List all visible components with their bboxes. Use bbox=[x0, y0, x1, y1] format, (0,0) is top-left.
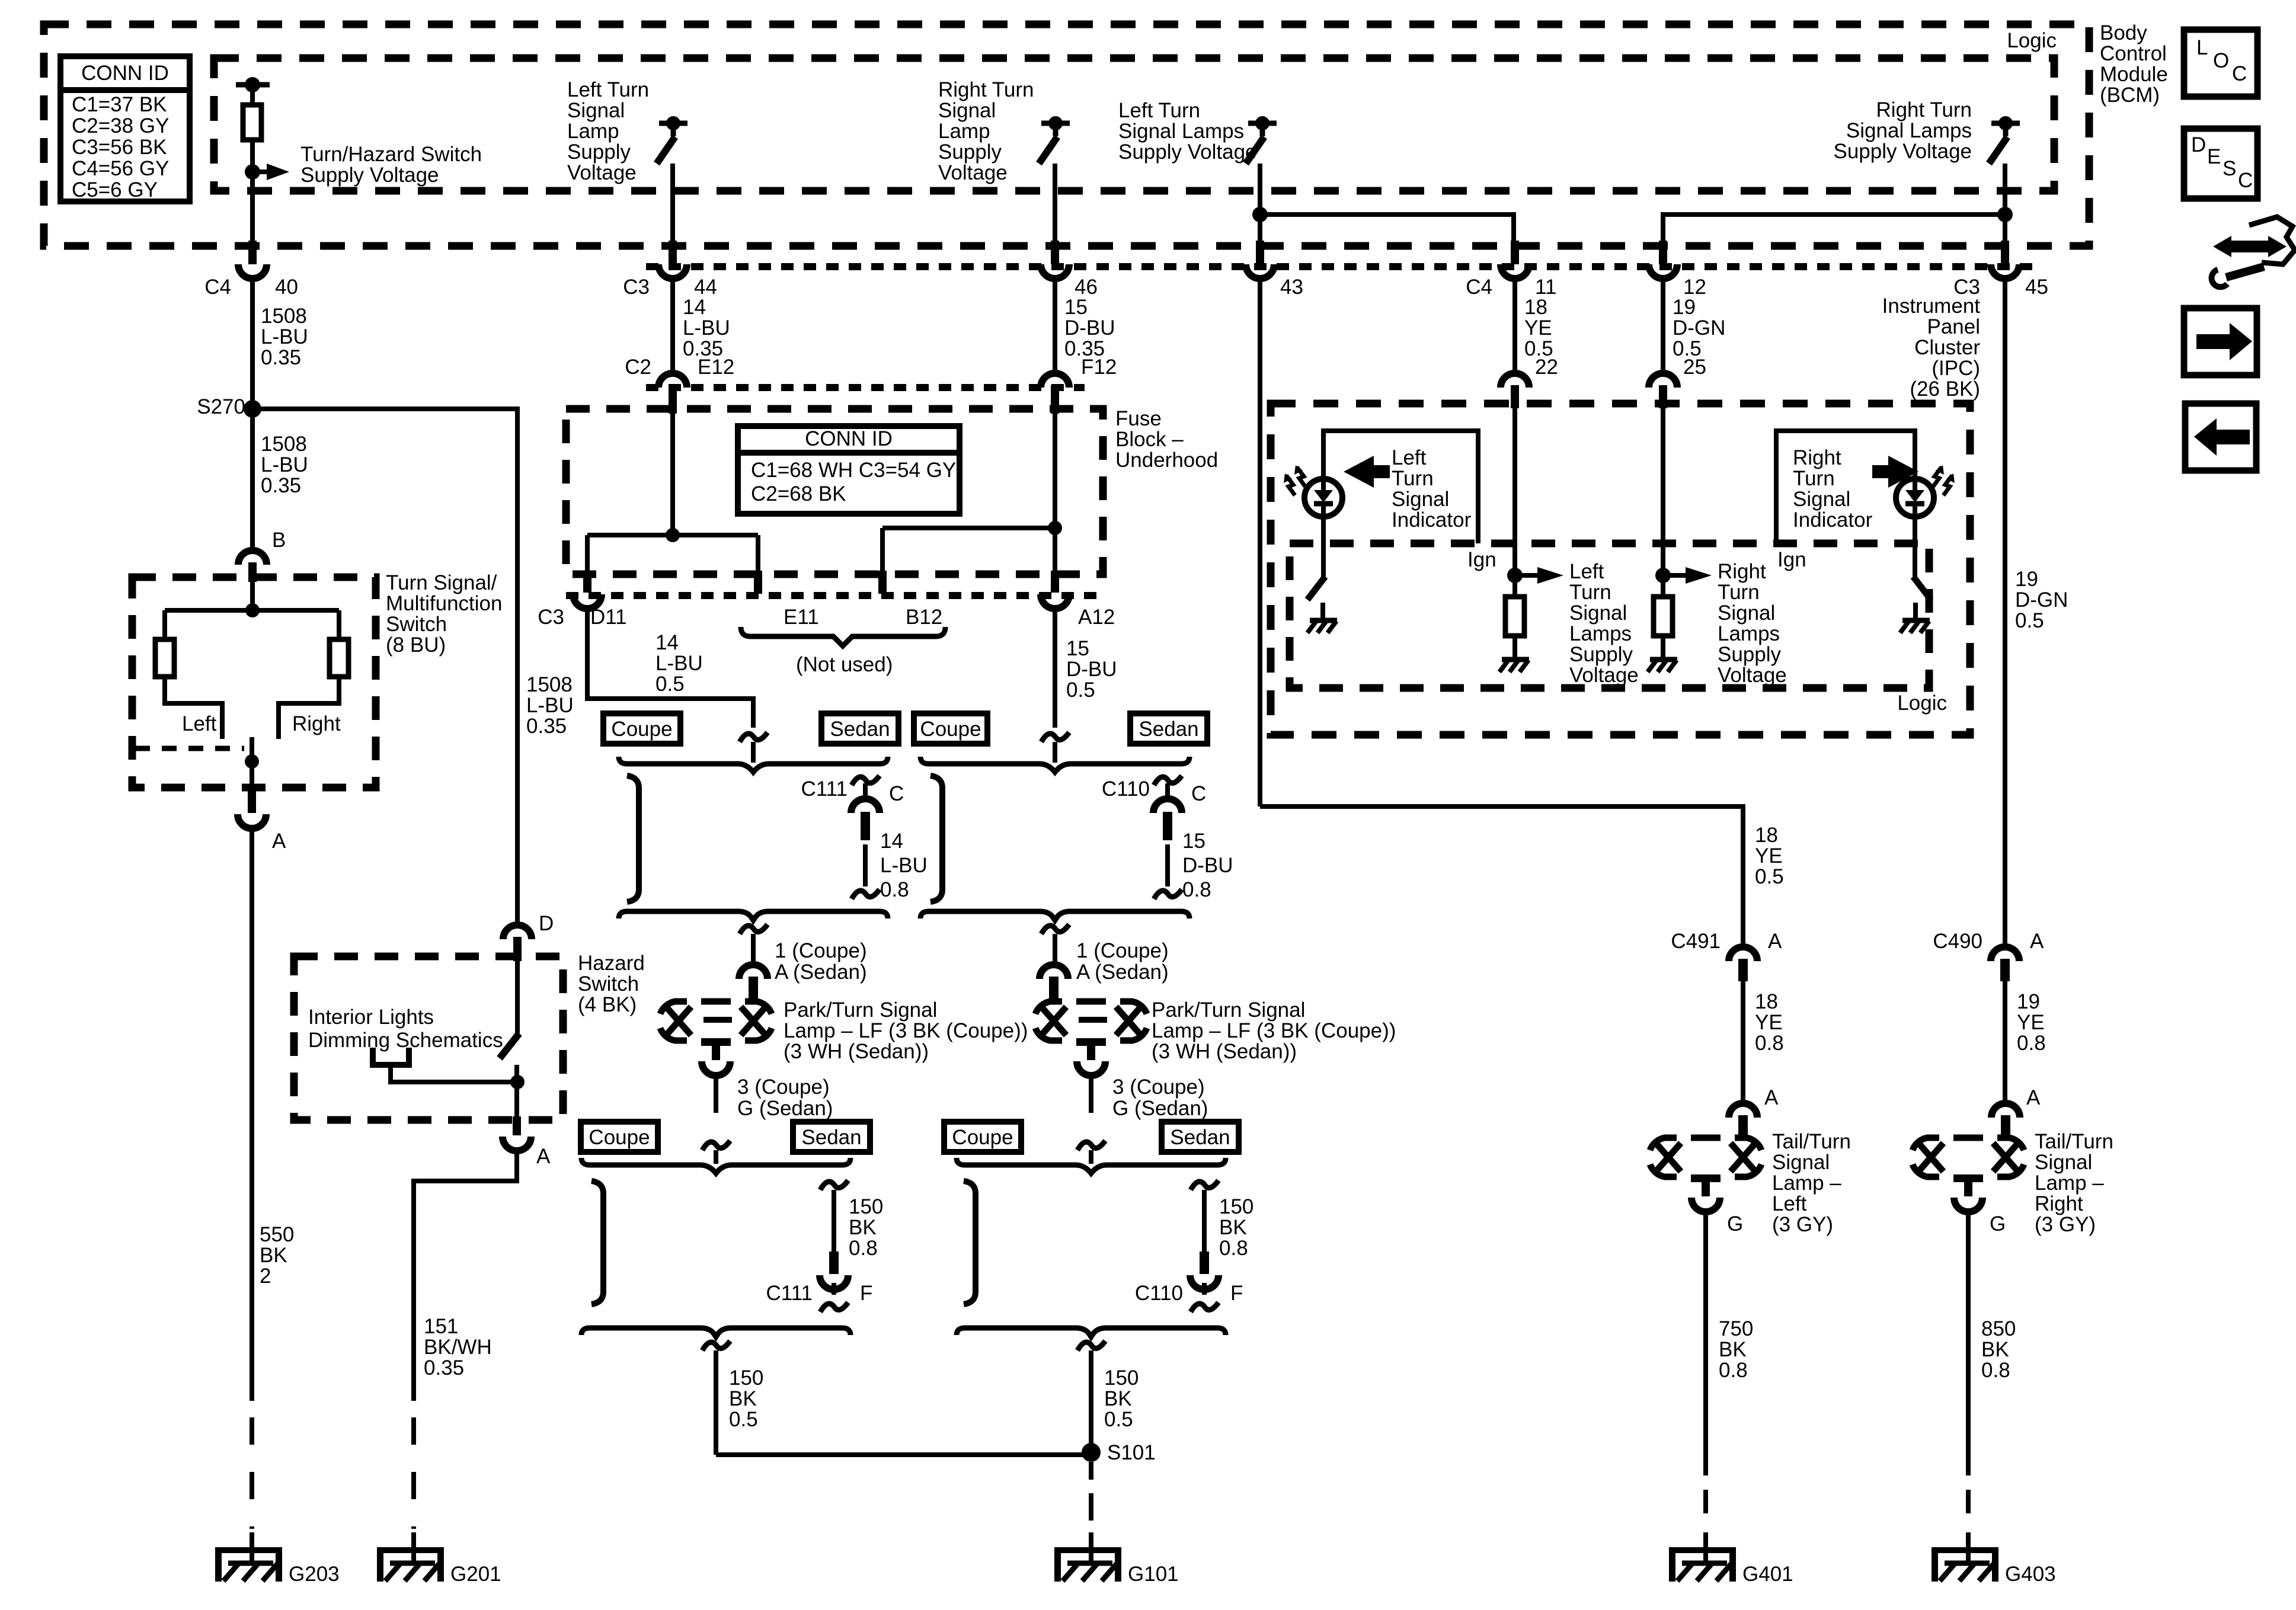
svg-text:C1=37 BK: C1=37 BK bbox=[72, 93, 167, 116]
svg-text:Block –: Block – bbox=[1115, 428, 1184, 451]
svg-text:YE: YE bbox=[1755, 844, 1783, 868]
CONN ID table (BCM) bbox=[60, 56, 190, 201]
svg-text:18: 18 bbox=[1755, 824, 1778, 847]
svg-text:1 (Coupe): 1 (Coupe) bbox=[775, 939, 867, 962]
svg-text:A: A bbox=[1768, 930, 1782, 953]
svg-text:Body: Body bbox=[2100, 21, 2147, 44]
variant brace top (C111) bbox=[619, 757, 888, 772]
svg-text:G (Sedan): G (Sedan) bbox=[737, 1097, 833, 1120]
svg-text:D-BU: D-BU bbox=[1064, 316, 1115, 340]
svg-text:C3=56 BK: C3=56 BK bbox=[72, 136, 167, 159]
svg-text:150: 150 bbox=[1104, 1366, 1139, 1390]
svg-text:Left: Left bbox=[1392, 446, 1427, 469]
svg-text:Signal Lamps: Signal Lamps bbox=[1846, 119, 1972, 142]
dotted harness line row3 (D11/E11/B12/A12) bbox=[566, 592, 1103, 599]
svg-text:Indicator: Indicator bbox=[1392, 508, 1472, 532]
Sedan label box (upper, C111 chain) bbox=[821, 713, 898, 744]
resistor IPC left bbox=[1505, 597, 1524, 636]
coupe path wire (C110 chain) bbox=[930, 776, 942, 902]
svg-text:Supply: Supply bbox=[1718, 643, 1782, 666]
lower variant brace bottom (C110) bbox=[957, 1328, 1226, 1337]
svg-text:Cluster: Cluster bbox=[1914, 336, 1980, 359]
svg-text:Hazard: Hazard bbox=[578, 952, 645, 975]
wire RF lamp output 3/G bbox=[1089, 1074, 1093, 1113]
svg-text:C110: C110 bbox=[1102, 777, 1150, 801]
svg-text:Lamps: Lamps bbox=[1569, 622, 1632, 645]
wire S101 to G101 dashed bbox=[1089, 1462, 1093, 1480]
wiper linkage dashed bbox=[135, 746, 244, 751]
svg-text:0.8: 0.8 bbox=[1219, 1237, 1248, 1260]
LED left turn indicator bbox=[1304, 479, 1342, 517]
svg-text:G: G bbox=[1727, 1212, 1743, 1235]
variant brace bottom (C111) bbox=[619, 911, 888, 920]
svg-text:C: C bbox=[2238, 169, 2253, 192]
svg-text:14: 14 bbox=[655, 631, 679, 654]
svg-text:Left: Left bbox=[182, 712, 217, 735]
svg-text:0.35: 0.35 bbox=[526, 715, 567, 738]
svg-text:C1=68 WH C3=54 GY: C1=68 WH C3=54 GY bbox=[751, 459, 956, 482]
svg-text:G (Sedan): G (Sedan) bbox=[1112, 1097, 1208, 1120]
svg-text:L-BU: L-BU bbox=[261, 453, 308, 476]
wire lamp output 3/G bbox=[714, 1074, 718, 1113]
junction dot pin45 node bbox=[1997, 207, 2013, 222]
ground LED right bbox=[1902, 618, 1930, 623]
svg-text:C2=38 GY: C2=38 GY bbox=[72, 114, 169, 137]
svg-text:Coupe: Coupe bbox=[611, 718, 672, 741]
lightning arrows right LED bbox=[1933, 467, 1942, 487]
svg-text:Coupe: Coupe bbox=[952, 1126, 1013, 1149]
interior lights dimming linkage bbox=[373, 1048, 409, 1065]
Sedan label box (upper, C110 chain) bbox=[1130, 713, 1207, 744]
svg-text:0.5: 0.5 bbox=[1104, 1408, 1133, 1431]
svg-text:D-GN: D-GN bbox=[1673, 316, 1725, 340]
svg-text:Left: Left bbox=[1569, 560, 1604, 583]
Coupe label box (lower, C110 chain) bbox=[944, 1122, 1021, 1152]
IPC pullup right: wire, node, arrow bbox=[1661, 408, 1665, 597]
svg-text:L-BU: L-BU bbox=[683, 316, 730, 340]
Sedan label box (lower, C110 chain) bbox=[1162, 1122, 1239, 1152]
terminal E11 bbox=[754, 571, 762, 594]
svg-text:15: 15 bbox=[1064, 296, 1088, 319]
svg-text:A: A bbox=[536, 1145, 551, 1168]
svg-text:0.35: 0.35 bbox=[424, 1356, 464, 1379]
sedan path connector C110 F bbox=[1191, 1180, 1219, 1190]
svg-text:850: 850 bbox=[1981, 1317, 2016, 1340]
svg-text:F: F bbox=[1230, 1282, 1243, 1305]
svg-text:Underhood: Underhood bbox=[1115, 449, 1218, 472]
svg-text:(Not used): (Not used) bbox=[796, 653, 893, 676]
svg-text:(26 BK): (26 BK) bbox=[1910, 377, 1980, 401]
lamp Tail/Turn Signal Lamp - Right bbox=[1913, 1138, 1939, 1150]
lower variant brace bottom (C111) bbox=[581, 1328, 850, 1337]
svg-text:C: C bbox=[889, 782, 904, 805]
svg-text:Tail/Turn: Tail/Turn bbox=[2035, 1130, 2113, 1153]
lamp Park/Turn Signal Lamp - RF (right) bbox=[1035, 1001, 1062, 1014]
svg-text:C111: C111 bbox=[766, 1282, 813, 1305]
connector pin A12 bbox=[1051, 571, 1059, 593]
coupe path wire (lower C111) bbox=[591, 1181, 603, 1304]
svg-text:Dimming Schematics: Dimming Schematics bbox=[308, 1029, 503, 1052]
Coupe label box (upper, C110 chain) bbox=[914, 713, 987, 744]
wire S270 to hazard switch feed bbox=[252, 409, 517, 925]
svg-text:1 (Coupe): 1 (Coupe) bbox=[1076, 939, 1169, 962]
svg-text:1508: 1508 bbox=[261, 433, 307, 456]
svg-text:C110: C110 bbox=[1135, 1282, 1183, 1305]
svg-text:Coupe: Coupe bbox=[920, 718, 981, 741]
svg-text:Multifunction: Multifunction bbox=[386, 592, 502, 615]
connector pin 46 bbox=[1051, 241, 1059, 264]
wiper common contact bbox=[250, 737, 254, 795]
svg-text:Supply: Supply bbox=[1569, 643, 1633, 666]
svg-text:D-BU: D-BU bbox=[1066, 658, 1117, 681]
wire 19 D-GN 0.5 to IPC 25 bbox=[1661, 279, 1665, 373]
left contact bbox=[165, 677, 222, 739]
svg-text:A: A bbox=[2030, 930, 2044, 953]
fuse block underhood dashed box bbox=[566, 409, 1103, 574]
svg-text:A: A bbox=[2026, 1086, 2041, 1109]
svg-text:(4 BK): (4 BK) bbox=[578, 993, 637, 1016]
wire below lower brace (C110) bbox=[1077, 1341, 1105, 1350]
svg-text:Supply Voltage: Supply Voltage bbox=[1118, 140, 1257, 164]
wire 18 YE 0.5 to C491 bbox=[1260, 806, 1743, 947]
ground G201 bbox=[377, 1547, 444, 1553]
wire below brace (C111) bbox=[740, 924, 768, 934]
wire 19 D-GN 0.5 rear right feed bbox=[2003, 279, 2007, 947]
svg-text:Coupe: Coupe bbox=[589, 1126, 650, 1149]
svg-text:(BCM): (BCM) bbox=[2100, 84, 2160, 107]
svg-text:Lamp –: Lamp – bbox=[1772, 1172, 1841, 1195]
svg-text:0.5: 0.5 bbox=[655, 673, 685, 696]
ground G401 bbox=[1669, 1547, 1736, 1553]
wire 14 L-BU 0.35 bbox=[670, 279, 675, 373]
svg-text:Lamp – LF (3 BK (Coupe)): Lamp – LF (3 BK (Coupe)) bbox=[1152, 1019, 1396, 1042]
svg-text:Signal: Signal bbox=[567, 99, 625, 122]
ground IPC left bbox=[1502, 657, 1529, 662]
svg-text:CONN ID: CONN ID bbox=[81, 62, 169, 85]
svg-text:S: S bbox=[2223, 157, 2236, 180]
svg-text:Voltage: Voltage bbox=[938, 161, 1008, 184]
svg-text:(3 WH (Sedan)): (3 WH (Sedan)) bbox=[1152, 1040, 1297, 1063]
bracket (Not used) E11-B12 bbox=[741, 627, 945, 646]
lower variant brace top (C110) bbox=[957, 1158, 1226, 1173]
connector A park/turn lamp LF bbox=[739, 965, 768, 979]
svg-text:E12: E12 bbox=[698, 356, 734, 379]
svg-text:15: 15 bbox=[1066, 637, 1089, 660]
svg-text:C3: C3 bbox=[538, 606, 564, 629]
ground G101 bbox=[1054, 1547, 1121, 1553]
svg-text:O: O bbox=[2213, 49, 2229, 72]
svg-text:3 (Coupe): 3 (Coupe) bbox=[737, 1076, 830, 1099]
svg-text:Module: Module bbox=[2100, 63, 2168, 86]
svg-text:Sedan: Sedan bbox=[830, 718, 890, 741]
svg-text:1508: 1508 bbox=[526, 673, 573, 696]
ground G403 bbox=[1932, 1547, 1998, 1553]
svg-text:Left Turn: Left Turn bbox=[1118, 99, 1200, 122]
svg-text:43: 43 bbox=[1280, 276, 1303, 299]
wire 18 YE 0.8 bbox=[1741, 981, 1745, 1103]
svg-text:Lamp: Lamp bbox=[938, 120, 990, 143]
svg-text:Park/Turn Signal: Park/Turn Signal bbox=[784, 998, 937, 1022]
svg-text:150: 150 bbox=[729, 1366, 763, 1390]
svg-text:A (Sedan): A (Sedan) bbox=[1076, 961, 1169, 984]
svg-text:B12: B12 bbox=[906, 606, 942, 629]
switch Right Turn Signal Lamps (BCM output 45) bbox=[1991, 121, 2020, 126]
Coupe label box (upper, C111 chain) bbox=[603, 713, 680, 744]
resistor right (switch) bbox=[337, 610, 341, 639]
sedan path connector C110 C bbox=[1154, 776, 1182, 785]
svg-text:18: 18 bbox=[1524, 296, 1547, 319]
svg-text:G203: G203 bbox=[289, 1563, 340, 1586]
svg-text:Right: Right bbox=[292, 712, 341, 735]
svg-text:Lamp: Lamp bbox=[567, 120, 619, 143]
wire LED loop to logic (right) bbox=[1776, 431, 1915, 543]
sedan path connector C111 C bbox=[852, 776, 880, 785]
svg-text:BK/WH: BK/WH bbox=[424, 1336, 492, 1359]
svg-text:14: 14 bbox=[880, 830, 903, 853]
hazard switch dashed box bbox=[294, 956, 563, 1120]
svg-text:Signal: Signal bbox=[1718, 601, 1775, 625]
BCM outer dashed box bbox=[44, 24, 2089, 246]
wire below lower brace (C111) bbox=[702, 1341, 730, 1350]
wire squiggle above lower brace (C110) bbox=[1077, 1141, 1105, 1150]
svg-text:Supply Voltage: Supply Voltage bbox=[300, 164, 439, 187]
svg-text:Turn Signal/: Turn Signal/ bbox=[386, 571, 497, 594]
svg-text:L-BU: L-BU bbox=[261, 325, 308, 348]
svg-text:Turn: Turn bbox=[1718, 581, 1760, 604]
svg-text:0.8: 0.8 bbox=[849, 1237, 878, 1260]
switch Right Turn Signal Lamp (BCM output 46) bbox=[1041, 121, 1070, 126]
right arrow box bbox=[2184, 308, 2257, 375]
left arrow box bbox=[2185, 404, 2256, 470]
IPC outer dashed box bbox=[1271, 404, 1970, 735]
svg-text:D-GN: D-GN bbox=[2015, 588, 2068, 612]
svg-text:0.5: 0.5 bbox=[1066, 678, 1095, 702]
svg-text:3 (Coupe): 3 (Coupe) bbox=[1112, 1076, 1205, 1099]
right contact bbox=[279, 677, 339, 739]
svg-text:BK: BK bbox=[1981, 1338, 2009, 1361]
LED driver switch left bbox=[1321, 517, 1326, 577]
connector pin 12 bbox=[1659, 241, 1667, 264]
svg-text:BK: BK bbox=[849, 1216, 877, 1239]
svg-text:Tail/Turn: Tail/Turn bbox=[1772, 1130, 1851, 1153]
svg-text:14: 14 bbox=[683, 296, 706, 319]
svg-text:0.8: 0.8 bbox=[880, 878, 909, 901]
wire squiggle above lower brace (C111) bbox=[702, 1141, 730, 1150]
svg-text:0.8: 0.8 bbox=[2017, 1032, 2046, 1055]
svg-text:19: 19 bbox=[2015, 568, 2038, 591]
svg-text:YE: YE bbox=[1755, 1011, 1783, 1034]
svg-text:0.5: 0.5 bbox=[2015, 609, 2044, 632]
svg-text:Ign: Ign bbox=[1777, 548, 1806, 571]
svg-text:Sedan: Sedan bbox=[801, 1126, 861, 1149]
svg-text:150: 150 bbox=[1219, 1195, 1253, 1218]
connector pin 25 bbox=[1649, 373, 1677, 388]
svg-text:G201: G201 bbox=[450, 1563, 501, 1586]
svg-text:Instrument: Instrument bbox=[1882, 295, 1981, 318]
svg-text:0.8: 0.8 bbox=[1755, 1032, 1784, 1055]
svg-text:2: 2 bbox=[260, 1265, 271, 1288]
connector pin 22 bbox=[1501, 373, 1529, 388]
sedan path connector C111 F bbox=[820, 1180, 848, 1190]
lightning arrows left LED bbox=[1297, 467, 1306, 487]
svg-text:40: 40 bbox=[275, 276, 298, 299]
ground IPC right bbox=[1650, 657, 1677, 662]
connector C4 pin 40 bbox=[248, 241, 257, 264]
connector D hazard switch bbox=[515, 923, 520, 927]
svg-text:Supply Voltage: Supply Voltage bbox=[1833, 140, 1972, 163]
wire fuse to pin 40 bbox=[250, 172, 255, 244]
svg-text:Switch: Switch bbox=[386, 613, 447, 636]
svg-text:YE: YE bbox=[2017, 1011, 2045, 1034]
resistor IPC right bbox=[1654, 597, 1673, 636]
svg-text:Right Turn: Right Turn bbox=[938, 78, 1034, 101]
DESC box bbox=[2184, 129, 2257, 199]
svg-text:150: 150 bbox=[849, 1195, 883, 1218]
svg-text:Lamp – LF (3 BK (Coupe)): Lamp – LF (3 BK (Coupe)) bbox=[784, 1019, 1028, 1042]
svg-text:(IPC): (IPC) bbox=[1932, 357, 1980, 380]
svg-text:Signal: Signal bbox=[1772, 1151, 1830, 1174]
svg-text:D-BU: D-BU bbox=[1182, 854, 1233, 877]
wire squiggle above brace (C111) bbox=[740, 732, 768, 742]
svg-text:S270: S270 bbox=[197, 395, 245, 418]
fuse block left net wire E12-D11-E11 bbox=[670, 409, 675, 535]
label box Left Turn Signal Indicator arrow bbox=[1344, 456, 1390, 488]
svg-text:Fuse: Fuse bbox=[1115, 407, 1162, 430]
svg-text:0.35: 0.35 bbox=[261, 346, 301, 369]
svg-text:E: E bbox=[2207, 145, 2221, 168]
svg-text:F: F bbox=[860, 1282, 872, 1305]
svg-text:(3 WH (Sedan)): (3 WH (Sedan)) bbox=[784, 1040, 929, 1063]
svg-text:19: 19 bbox=[2017, 990, 2040, 1013]
BCM inner Logic dashed box bbox=[214, 58, 2054, 191]
connector C3 pin 45 (IPC) bbox=[2001, 241, 2009, 264]
variant brace bottom (C110) bbox=[920, 911, 1189, 920]
svg-text:C5=6 GY: C5=6 GY bbox=[72, 178, 158, 201]
svg-text:750: 750 bbox=[1719, 1317, 1753, 1340]
svg-text:Right Turn: Right Turn bbox=[1876, 98, 1972, 121]
svg-text:0.5: 0.5 bbox=[729, 1408, 758, 1431]
svg-text:C2: C2 bbox=[625, 356, 651, 379]
svg-text:L-BU: L-BU bbox=[880, 854, 928, 877]
svg-text:A (Sedan): A (Sedan) bbox=[775, 961, 867, 984]
dotted harness line row1 bbox=[646, 263, 2033, 270]
svg-text:151: 151 bbox=[424, 1315, 458, 1338]
svg-text:D: D bbox=[539, 912, 554, 935]
svg-text:L-BU: L-BU bbox=[655, 652, 703, 675]
svg-text:Sedan: Sedan bbox=[1139, 718, 1198, 741]
wire 850 BK 0.8 to G403 bbox=[1966, 1211, 1971, 1475]
CONN ID table (fuse block) bbox=[738, 426, 960, 514]
svg-text:Signal Lamps: Signal Lamps bbox=[1118, 120, 1244, 143]
svg-text:Control: Control bbox=[2100, 42, 2167, 65]
svg-text:C491: C491 bbox=[1671, 930, 1721, 953]
svg-text:C4=56 GY: C4=56 GY bbox=[72, 157, 169, 180]
svg-text:1508: 1508 bbox=[261, 305, 307, 328]
svg-text:Panel: Panel bbox=[1927, 315, 1980, 338]
svg-text:C4: C4 bbox=[1466, 276, 1492, 299]
coupe path wire (C111 chain) bbox=[627, 776, 639, 902]
Coupe label box (lower, C111 chain) bbox=[581, 1122, 658, 1152]
svg-text:C2=68 BK: C2=68 BK bbox=[751, 482, 846, 505]
svg-text:F12: F12 bbox=[1081, 356, 1117, 379]
lower variant brace top (C111) bbox=[581, 1158, 850, 1173]
connector A park/turn lamp RF bbox=[1040, 965, 1068, 979]
svg-text:C490: C490 bbox=[1933, 930, 1982, 953]
svg-text:BK: BK bbox=[1104, 1387, 1132, 1410]
svg-text:Right: Right bbox=[2035, 1192, 2083, 1215]
svg-text:A: A bbox=[272, 830, 286, 853]
svg-text:C: C bbox=[2232, 62, 2247, 85]
LED driver switch right bbox=[1913, 517, 1917, 577]
fuse block right net wire F12-A12-B12 bbox=[1053, 409, 1057, 571]
svg-text:Signal: Signal bbox=[1793, 488, 1850, 511]
svg-text:C111: C111 bbox=[801, 777, 848, 801]
svg-text:Ign: Ign bbox=[1467, 548, 1496, 571]
svg-text:Supply: Supply bbox=[938, 140, 1002, 164]
svg-text:Sedan: Sedan bbox=[1170, 1126, 1230, 1149]
svg-text:Signal: Signal bbox=[938, 99, 996, 122]
wire 750 BK 0.8 to G401 bbox=[1703, 1211, 1708, 1475]
svg-text:22: 22 bbox=[1535, 356, 1558, 379]
turn signal/multifunction switch dashed box bbox=[132, 577, 376, 788]
svg-text:Voltage: Voltage bbox=[1569, 664, 1639, 687]
svg-text:Signal: Signal bbox=[2035, 1151, 2092, 1174]
dotted harness line row2 (E12/F12) bbox=[646, 384, 1085, 391]
svg-text:Voltage: Voltage bbox=[1718, 664, 1787, 687]
wire 151 BK/WH 0.35 to G201 bbox=[414, 1151, 517, 1401]
hazard switch blade bbox=[515, 961, 520, 1033]
wire 15 D-BU 0.35 bbox=[1053, 279, 1057, 373]
ground LED left bbox=[1310, 618, 1337, 623]
svg-text:Turn: Turn bbox=[1392, 467, 1434, 490]
junction dot with arrow Turn/Hazard Switch Supply Voltage bbox=[245, 164, 260, 180]
svg-text:BK: BK bbox=[1719, 1338, 1747, 1361]
svg-text:45: 45 bbox=[2025, 276, 2048, 299]
svg-text:(3 GY): (3 GY) bbox=[1772, 1213, 1833, 1236]
splice S270 bbox=[250, 279, 255, 550]
svg-text:Signal: Signal bbox=[1569, 601, 1627, 625]
svg-text:Lamps: Lamps bbox=[1718, 622, 1780, 645]
svg-text:Turn: Turn bbox=[1793, 467, 1835, 490]
svg-text:Turn/Hazard Switch: Turn/Hazard Switch bbox=[300, 143, 482, 166]
svg-text:Voltage: Voltage bbox=[567, 161, 637, 184]
svg-text:Lamp –: Lamp – bbox=[2035, 1172, 2104, 1195]
svg-text:Turn: Turn bbox=[1569, 581, 1611, 604]
svg-text:550: 550 bbox=[260, 1223, 294, 1246]
wire 43 to C4 pin 11 bbox=[1260, 215, 1514, 244]
svg-text:YE: YE bbox=[1524, 316, 1552, 340]
connector A hazard switch bbox=[513, 1116, 521, 1135]
svg-text:L-BU: L-BU bbox=[526, 694, 574, 717]
svg-text:L: L bbox=[2196, 36, 2208, 59]
svg-text:BK: BK bbox=[729, 1387, 757, 1410]
wire 550 BK 2 to G203 bbox=[250, 828, 254, 1401]
wire LED loop to logic (left) bbox=[1323, 431, 1478, 543]
LOC box bbox=[2184, 30, 2257, 97]
svg-text:19: 19 bbox=[1673, 296, 1696, 319]
svg-text:G401: G401 bbox=[1742, 1563, 1793, 1586]
junction dot pin43 node bbox=[1252, 207, 1268, 222]
svg-text:D: D bbox=[2191, 133, 2206, 156]
svg-text:0.8: 0.8 bbox=[1182, 878, 1211, 901]
terminal B12 bbox=[878, 571, 887, 594]
svg-text:Logic: Logic bbox=[2007, 29, 2057, 52]
switch Left Turn Signal Lamps (BCM output 43) bbox=[1248, 121, 1277, 126]
svg-text:B: B bbox=[272, 529, 286, 552]
IPC pullup left: wire, node, arrow bbox=[1512, 408, 1517, 597]
label box Right Turn Signal Indicator arrow bbox=[1872, 456, 1918, 488]
connector C4 pin 11 bbox=[1511, 241, 1519, 264]
